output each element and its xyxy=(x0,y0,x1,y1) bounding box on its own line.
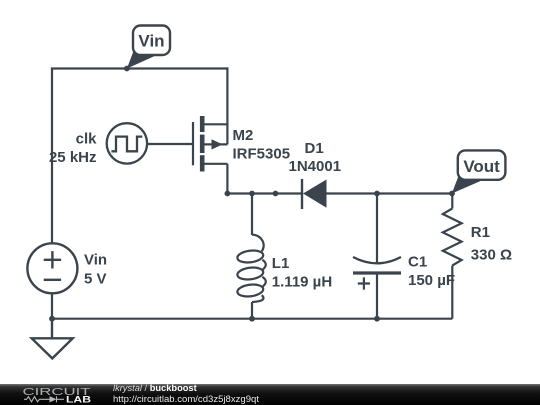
diode D1 1N4001 xyxy=(302,179,327,209)
capacitor C1 xyxy=(353,192,401,319)
wire source to switch node xyxy=(226,164,228,195)
svg-text:clk: clk xyxy=(76,130,98,147)
svg-text:L1: L1 xyxy=(272,255,290,272)
node bottom at C1 xyxy=(374,316,380,322)
label C1 150 uF xyxy=(408,254,455,290)
label M2 IRF5305 xyxy=(233,127,291,163)
svg-text:1N4001: 1N4001 xyxy=(289,158,342,175)
node switch at diode anode xyxy=(273,191,279,197)
svg-text:LAB: LAB xyxy=(66,394,91,405)
node output at C1 top xyxy=(374,191,380,197)
node Vout xyxy=(449,191,455,197)
wire source bottom lead xyxy=(51,293,53,320)
svg-text:M2: M2 xyxy=(233,127,254,144)
net flag Vin xyxy=(127,26,170,69)
net flag Vout xyxy=(452,150,506,193)
wire bottom rail xyxy=(52,318,452,320)
ground xyxy=(32,319,73,359)
node switch at M2 source xyxy=(225,191,231,197)
svg-text:5 V: 5 V xyxy=(84,271,107,288)
label R1 330 Ohm xyxy=(471,224,512,264)
label D1 1N4001 xyxy=(289,140,342,175)
inductor L1 xyxy=(237,192,266,319)
svg-text:D1: D1 xyxy=(305,140,324,157)
node bottom at L1 xyxy=(249,316,255,322)
svg-text:1.119 µH: 1.119 µH xyxy=(272,274,332,291)
wire top xyxy=(51,67,228,69)
wire left rail xyxy=(51,69,53,244)
node switch at L1 xyxy=(249,191,255,197)
label clk 25 kHz xyxy=(49,130,97,166)
svg-text:R1: R1 xyxy=(471,224,490,241)
svg-text:150 µF: 150 µF xyxy=(408,272,455,289)
svg-text:25 kHz: 25 kHz xyxy=(49,149,97,166)
voltage source V1 Vin 5 V xyxy=(27,243,77,293)
svg-text:Vin: Vin xyxy=(84,252,107,269)
transistor M2 IRF5305 xyxy=(193,116,227,172)
svg-text:Vin: Vin xyxy=(138,32,164,51)
node ground junction xyxy=(49,316,55,322)
resistor R1 xyxy=(443,192,462,318)
footer bar xyxy=(0,383,540,405)
label Vin 5 V xyxy=(84,252,107,288)
wire switch node horizontal xyxy=(227,192,302,194)
svg-text:C1: C1 xyxy=(408,254,427,271)
svg-text:http://circuitlab.com/cd3z5j8x: http://circuitlab.com/cd3z5j8xzg9qt xyxy=(113,394,260,404)
wire drain vertical xyxy=(226,67,228,144)
square-wave source clk 25 kHz xyxy=(107,123,147,163)
svg-text:IRF5305: IRF5305 xyxy=(233,146,291,163)
label L1 1.119 uH xyxy=(272,255,332,291)
svg-text:330 Ω: 330 Ω xyxy=(471,247,512,264)
svg-text:lkrystal / buckboost: lkrystal / buckboost xyxy=(113,383,197,393)
wire diode to output node xyxy=(327,192,453,194)
svg-text:Vout: Vout xyxy=(463,157,500,176)
node Vin top junction xyxy=(124,66,130,72)
wire gate lead xyxy=(147,143,193,145)
